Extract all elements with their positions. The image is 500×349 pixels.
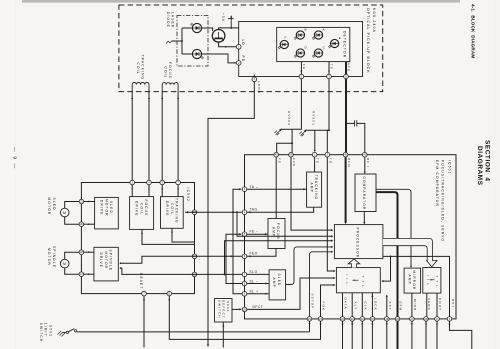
- wire detector FE out: [300, 62, 302, 75]
- wire FZC pin to processor: [291, 157, 332, 230]
- pin DATA: [340, 317, 345, 322]
- wire TG pin to TTL: [327, 157, 335, 271]
- wire CLK down: [361, 321, 363, 349]
- capacitor C coupling RF: [345, 122, 347, 124]
- wire FE pickup to servo: [292, 79, 301, 130]
- pin coil drive 4: [176, 180, 181, 185]
- wire SLO branch to processor: [225, 241, 333, 275]
- pin COUT: [435, 317, 440, 322]
- pin DFCT: [242, 307, 247, 312]
- wire trimmer wiper to TE pin: [314, 130, 316, 150]
- wire LOCK down: [371, 321, 373, 349]
- svg-text:F: F: [285, 36, 287, 40]
- svg-text:C: C: [323, 46, 326, 50]
- pin IC502 reset: [142, 291, 147, 296]
- wire AST stub: [386, 296, 388, 317]
- wire XRST feed: [390, 255, 392, 257]
- svg-text:IC501: IC501: [447, 160, 451, 175]
- pin LOCK: [370, 317, 375, 322]
- svg-text:SENS: SENS: [427, 298, 431, 311]
- svg-text:FEO: FEO: [250, 252, 258, 256]
- svg-text:TRACKING: TRACKING: [175, 198, 179, 224]
- svg-text:FE: FE: [277, 158, 281, 164]
- TTL interface box 1: [336, 268, 380, 293]
- svg-text:COUT: COUT: [438, 298, 442, 311]
- sled motor drive box: [95, 197, 119, 229]
- svg-text:B: B: [305, 28, 308, 32]
- defect switch S961 box: [215, 299, 233, 323]
- wire MIRR down: [411, 321, 413, 349]
- wire mirror amp to MIRR pin: [411, 293, 413, 317]
- svg-text:I I L: I I L: [426, 276, 430, 287]
- focus amp box: [268, 219, 285, 249]
- svg-text:EFM: EFM: [399, 302, 403, 312]
- wire grating to diodes: [172, 40, 182, 42]
- limit switch S501: [58, 331, 66, 337]
- wire TA- to tracking amp: [247, 188, 307, 190]
- wire tracking drive bottom feed: [172, 228, 195, 242]
- mirror amp box: [404, 268, 421, 293]
- wire focus coil to driver pins: [161, 92, 163, 181]
- pin RFI: [363, 152, 368, 157]
- transistor Q APC: [212, 30, 225, 43]
- svg-text:SL +: SL +: [250, 290, 259, 294]
- wire XLT down: [351, 321, 353, 349]
- svg-text:LOCK: LOCK: [374, 298, 378, 311]
- trimmer RV501: [306, 129, 329, 131]
- detector box: [277, 27, 350, 61]
- svg-text:RESET: RESET: [139, 273, 143, 289]
- IC501 servo block box: [245, 155, 457, 319]
- wire TTL2 to SENS COUT pins: [426, 293, 428, 317]
- svg-text:MOTOR: MOTOR: [104, 199, 108, 217]
- svg-text:RV502: RV502: [287, 111, 291, 126]
- focus coil: [162, 83, 178, 92]
- wire TTL1 to DATA XLT CLK LOCK pins: [342, 293, 344, 317]
- arrow into spindle drive 1: [119, 262, 121, 264]
- pin FEO: [242, 254, 247, 259]
- svg-text:FE –: FE –: [250, 230, 259, 234]
- svg-text:TG: TG: [328, 158, 332, 164]
- svg-text:DIAGRAMS: DIAGRAMS: [476, 146, 483, 186]
- svg-text:MOTOR: MOTOR: [104, 252, 108, 270]
- svg-text:DATA: DATA: [344, 298, 348, 310]
- pin CLK: [360, 317, 365, 322]
- svg-text:A: A: [323, 28, 326, 32]
- photodiode F: [278, 40, 289, 49]
- photodiode A: [312, 31, 323, 40]
- pin LDON: [252, 77, 257, 82]
- wire SL+ to sled amp: [233, 212, 242, 294]
- wire SLO to sled amp: [247, 273, 269, 275]
- pin TAG: [242, 210, 247, 215]
- wire RFO bold to processor: [345, 157, 347, 222]
- svg-text:MIRR: MIRR: [413, 299, 417, 311]
- svg-text:E: E: [339, 36, 342, 40]
- spindle motor drive box: [94, 247, 118, 281]
- svg-text:I I L: I I L: [345, 275, 349, 286]
- pin PD: [236, 61, 241, 66]
- svg-text:DRIVE: DRIVE: [99, 253, 103, 269]
- svg-text:SLED: SLED: [277, 274, 281, 287]
- svg-text:DETECTOR: DETECTOR: [342, 31, 346, 58]
- svg-text:XLT: XLT: [353, 302, 357, 311]
- pin TA-: [242, 187, 247, 192]
- wire TE pin to tracking amp: [314, 157, 316, 172]
- svg-text:SECTION 4: SECTION 4: [483, 140, 490, 182]
- page fold area left: [0, 0, 15, 349]
- svg-text:AMP: AMP: [309, 183, 313, 193]
- wire RFI to comparator: [364, 157, 366, 172]
- wire EFM down bold: [397, 321, 399, 349]
- pin SSTOP: [307, 317, 312, 322]
- pin IC502 tracking in: [192, 210, 197, 215]
- wire sled drive to pins: [84, 201, 95, 203]
- grating symbol: [166, 41, 172, 44]
- wire spindle motor to IC502: [65, 252, 79, 259]
- svg-text:SPINDLE: SPINDLE: [109, 250, 113, 272]
- svg-text:OPTICAL PICK-UP BLOCK: OPTICAL PICK-UP BLOCK: [366, 8, 370, 74]
- svg-text:IC502: IC502: [186, 188, 190, 203]
- wire tracking amp out to TAG: [247, 207, 314, 212]
- pin XRST: [447, 317, 452, 322]
- pin coil drive 3: [160, 180, 165, 185]
- wire comparator to mirror amp: [376, 189, 411, 266]
- laser diode LD: [190, 23, 201, 33]
- wire trimmer to FE FZC pins: [277, 129, 292, 152]
- wire laser to transistor: [202, 28, 213, 31]
- wire sled motor to IC502: [65, 202, 79, 209]
- svg-text:RFO: RFO: [347, 158, 351, 168]
- pin LD: [236, 45, 241, 50]
- pin coil drive 2: [147, 180, 152, 185]
- hollow arrow TTL to processor: [348, 259, 360, 268]
- wire FOK to TTL: [321, 285, 336, 317]
- tracking coil: [132, 83, 149, 92]
- photodiode E: [328, 39, 339, 48]
- svg-text:FE: FE: [302, 64, 306, 70]
- wire FEO branch to spindle drive: [120, 256, 195, 263]
- wire detector RFD out (bold): [345, 62, 347, 75]
- svg-text:TAG: TAG: [250, 208, 258, 212]
- pin IC502 sled in: [192, 272, 197, 277]
- svg-text:AMP: AMP: [407, 275, 411, 285]
- svg-text:COIL: COIL: [170, 203, 174, 215]
- pin spindle motor +: [79, 250, 84, 255]
- svg-text:TRACKING: TRACKING: [141, 55, 145, 81]
- svg-text:DRIVE: DRIVE: [165, 201, 169, 217]
- wire +5V to pickup box: [231, 27, 239, 29]
- wire defect switch bottom: [222, 322, 224, 348]
- pin MIRR: [410, 317, 415, 322]
- wire detector TE out: [328, 62, 330, 75]
- monitor photodiode PD: [192, 49, 203, 59]
- pin FE pickup: [299, 74, 304, 79]
- svg-text:D: D: [305, 46, 308, 50]
- wire SL- to sled amp: [226, 256, 242, 283]
- pin FOK: [318, 317, 323, 322]
- svg-text:LD: LD: [241, 40, 245, 46]
- svg-text:MOTOR: MOTOR: [47, 248, 51, 266]
- wire spindle drive to pins: [84, 251, 94, 253]
- wire PD diode to PD pin: [202, 54, 235, 63]
- svg-text:TE: TE: [316, 158, 320, 164]
- svg-text:EFM COMPARATOR: EFM COMPARATOR: [435, 160, 439, 207]
- photodiode D: [294, 49, 305, 58]
- photodiode C: [312, 49, 323, 58]
- pin SENS: [424, 317, 429, 322]
- pin XLT: [350, 317, 355, 322]
- svg-text:SWITCH: SWITCH: [39, 323, 43, 342]
- svg-text:AMP: AMP: [272, 278, 276, 288]
- pin SL-: [242, 281, 247, 286]
- svg-text:M: M: [63, 262, 67, 266]
- wire focus drive bottom feed: [142, 229, 195, 244]
- spindle motor: [60, 259, 69, 268]
- pin TG: [325, 152, 330, 157]
- pin coil drive 1: [130, 180, 135, 185]
- svg-text:DRIVE: DRIVE: [100, 200, 104, 216]
- svg-text:SSTOP: SSTOP: [311, 294, 315, 310]
- wire FE- to focus amp: [247, 233, 268, 235]
- svg-text:FOK: FOK: [322, 302, 326, 312]
- svg-text:SLED: SLED: [52, 198, 56, 211]
- wire SSTOP from limit switch: [309, 321, 311, 332]
- pin RFO: [343, 152, 348, 157]
- pin FZC: [289, 152, 294, 157]
- wire tracking drive outputs to pins: [161, 185, 163, 197]
- wire XRST route: [450, 321, 472, 349]
- wire SENS down: [425, 321, 427, 349]
- svg-text:COIL: COIL: [163, 67, 167, 79]
- trimmer RV502: [281, 128, 292, 130]
- wire limit switch to SSTOP: [77, 331, 310, 333]
- wire DATA down: [342, 321, 344, 349]
- svg-text:KSS-240A: KSS-240A: [372, 8, 376, 33]
- wire focus amp out to FEO: [247, 249, 276, 257]
- wire FE pin to focus amp: [275, 157, 277, 219]
- svg-text:DRIVE: DRIVE: [135, 201, 139, 217]
- wire TAG to IC502 tracking drive: [185, 211, 242, 213]
- wire TAG feedback to TA-: [233, 189, 241, 212]
- arrow FOK pin from below: [319, 322, 321, 324]
- pin TE pickup: [327, 74, 332, 79]
- svg-text:SLO: SLO: [250, 270, 258, 274]
- svg-text:FOCUS: FOCUS: [276, 223, 280, 240]
- svg-text:M: M: [63, 211, 67, 215]
- svg-text:S501: S501: [48, 325, 52, 337]
- wire COUT down: [436, 321, 438, 349]
- sled motor: [60, 208, 69, 217]
- svg-text:LIMIT: LIMIT: [44, 323, 48, 337]
- tracking coil drive box: [161, 197, 184, 229]
- wire defect switch to DFCT: [232, 308, 241, 310]
- pin FE-: [242, 232, 247, 237]
- svg-text:TA –: TA –: [250, 185, 259, 189]
- pin RFD pickup: [344, 74, 349, 79]
- svg-text:MOTOR: MOTOR: [47, 198, 51, 216]
- IC502 driver block box: [81, 183, 194, 294]
- svg-text:FZC: FZC: [292, 158, 296, 167]
- svg-text:FOCUS: FOCUS: [144, 200, 148, 217]
- hollow arrow processor to TTL2 bus: [383, 238, 437, 267]
- wire FEO to IC502 focus drive: [195, 255, 243, 257]
- wire transistor top to +5V: [219, 28, 232, 30]
- wire DFCT to TTL: [247, 278, 335, 309]
- svg-text:T T L: T T L: [435, 276, 439, 289]
- arrow into spindle drive 2: [119, 267, 121, 269]
- pin AST: [385, 317, 390, 322]
- sled amp box: [269, 270, 286, 300]
- pin IC502 focus in: [192, 254, 197, 259]
- pin IC502 fok: [167, 291, 172, 296]
- wire transistor to LD pin: [219, 42, 237, 47]
- tracking amp box: [307, 172, 322, 207]
- svg-text:4-1. BLOCK DIAGRAM: 4-1. BLOCK DIAGRAM: [471, 4, 476, 58]
- processor box: [334, 225, 383, 259]
- svg-text:FOCUS: FOCUS: [168, 62, 172, 79]
- wire sled line to spindle drive: [120, 268, 195, 274]
- svg-text:SWITCH: SWITCH: [217, 300, 221, 319]
- svg-text:RFD: RFD: [347, 63, 351, 73]
- svg-text:PROCESSOR: PROCESSOR: [355, 228, 359, 259]
- svg-text:RV501: RV501: [311, 111, 315, 126]
- svg-text:CLK: CLK: [363, 302, 367, 311]
- svg-text:DEFECT: DEFECT: [222, 300, 226, 319]
- pin TE servo: [312, 152, 317, 157]
- svg-text:COMPARATOR: COMPARATOR: [362, 177, 366, 211]
- TTL interface box 2: [423, 268, 441, 294]
- pin SLO: [242, 272, 247, 277]
- comparator box: [355, 174, 376, 212]
- svg-text:AST: AST: [388, 302, 392, 311]
- svg-text:COIL: COIL: [136, 63, 140, 75]
- laser diode dash-dot box: [177, 16, 208, 67]
- wire SSTOP to processor: [310, 252, 333, 317]
- wire AST down: [386, 321, 388, 349]
- svg-text:DFCT: DFCT: [253, 305, 264, 309]
- pin sled motor -: [79, 222, 84, 227]
- wire TAG to processor: [237, 212, 332, 236]
- svg-text:SLED: SLED: [109, 201, 113, 214]
- photodiode B: [294, 31, 305, 40]
- svg-text:S961: S961: [226, 301, 230, 313]
- svg-text:T T L: T T L: [361, 276, 365, 289]
- svg-text:SPINDLE: SPINDLE: [52, 246, 56, 268]
- wire focus drive outputs to pins: [131, 185, 133, 197]
- dashed box KSS-240A optical pick-up block: [119, 5, 383, 92]
- svg-text:COIL: COIL: [139, 203, 143, 215]
- svg-text:DIODE: DIODE: [166, 12, 170, 28]
- wire tracking coil to driver pins: [131, 92, 133, 181]
- svg-text:RST: RST: [451, 299, 455, 308]
- wire comparator to processor: [363, 212, 365, 223]
- svg-text:LDON: LDON: [257, 81, 261, 94]
- wire TE pickup to servo: [327, 79, 329, 153]
- svg-text:TE: TE: [330, 64, 334, 70]
- wire LDON to system control: [208, 82, 254, 347]
- wire FEO feedback to FE-: [226, 234, 241, 256]
- pin EFM: [395, 317, 400, 322]
- pin spindle motor -: [79, 272, 84, 277]
- focus coil drive box: [130, 197, 154, 230]
- +5V supply: [228, 18, 234, 20]
- wire RFD bold to RFO pin: [345, 79, 347, 153]
- svg-text:SL –: SL –: [250, 279, 259, 283]
- svg-text:LASER: LASER: [171, 12, 175, 28]
- wire reset from below: [143, 296, 145, 348]
- wire processor to TTL1 right hook: [382, 256, 391, 281]
- wire fok pin8 from below: [169, 296, 320, 340]
- svg-text:TRACKING: TRACKING: [314, 175, 318, 201]
- svg-text:FOCUS/TRACKING/SLED, SERVO: FOCUS/TRACKING/SLED, SERVO: [441, 160, 445, 242]
- wire sled amp out to processor: [286, 247, 333, 285]
- svg-text:RF I: RF I: [366, 158, 370, 168]
- scan edge band top: [22, 0, 460, 3]
- pin SL+: [242, 292, 247, 297]
- wire SLO to IC502 sled line: [195, 273, 243, 275]
- wire comparator EFM bold out: [376, 192, 398, 349]
- svg-text:— 9 —: — 9 —: [12, 147, 18, 170]
- pickup inner connector box: [239, 22, 363, 77]
- svg-text:PD: PD: [241, 56, 245, 63]
- svg-text:+5V: +5V: [221, 13, 225, 22]
- pin FE servo: [274, 152, 279, 157]
- pin sled motor +: [79, 199, 84, 204]
- svg-text:MIRROR: MIRROR: [412, 271, 416, 291]
